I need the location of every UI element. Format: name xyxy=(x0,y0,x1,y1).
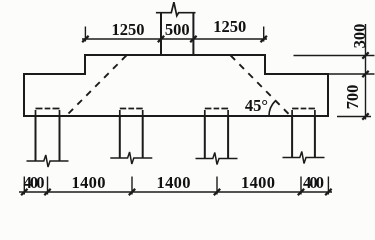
right dim tick at cap bottom xyxy=(362,113,368,119)
bottom dimension line xyxy=(19,191,332,193)
bottom dim tick at x=132 xyxy=(129,189,135,195)
right 45-degree dashed load-spread line xyxy=(231,55,289,114)
left 45-degree dashed load-spread line xyxy=(69,55,127,113)
svg-text:45°: 45° xyxy=(245,96,268,115)
top dim tick at x=264 xyxy=(261,36,267,42)
pile 3 break symbol xyxy=(196,153,238,165)
pile 1 embedded dashed head xyxy=(36,109,60,116)
bottom dim extension at x=328 xyxy=(327,177,329,195)
svg-text:1250: 1250 xyxy=(213,17,246,36)
right dim tick at step level xyxy=(362,71,368,77)
right dim extension at step level xyxy=(329,73,375,75)
pile cap outline (stepped footing) xyxy=(24,55,328,116)
svg-text:700: 700 xyxy=(343,85,362,110)
right dim extension at cap bottom xyxy=(337,116,371,118)
pile 3 shaft xyxy=(205,116,228,159)
top dimension line xyxy=(82,38,267,40)
bottom dim extension at x=301 xyxy=(300,177,302,195)
column left edge xyxy=(160,13,162,55)
svg-text:400: 400 xyxy=(303,173,324,192)
bottom dim tick at x=328 xyxy=(325,189,331,195)
bottom dim extension at x=132 xyxy=(131,177,133,195)
pile 4 break symbol xyxy=(283,152,325,164)
svg-text:1400: 1400 xyxy=(157,173,191,192)
pile 4 shaft xyxy=(292,116,315,158)
right dim tick at cap top xyxy=(362,52,368,58)
bottom dim extension at x=47 xyxy=(47,177,49,195)
top dim tick at x=161 xyxy=(158,36,164,42)
pile 1 break symbol xyxy=(27,155,69,167)
svg-text:500: 500 xyxy=(165,20,190,39)
bottom dim extension at x=217 xyxy=(216,177,218,195)
pile 2 shaft xyxy=(120,116,143,158)
pile 4 embedded dashed head xyxy=(292,109,315,116)
bottom dim tick at x=47 xyxy=(44,189,50,195)
bottom dim tick at x=217 xyxy=(214,189,220,195)
top dim left extension line xyxy=(84,27,86,42)
column right edge xyxy=(192,13,194,55)
right dim extension at cap top xyxy=(294,55,375,57)
bottom dim tick at x=24 xyxy=(21,189,27,195)
45-degree angle arc xyxy=(269,101,275,116)
svg-text:1250: 1250 xyxy=(112,20,145,39)
svg-text:400: 400 xyxy=(24,173,45,192)
svg-text:300: 300 xyxy=(350,24,369,49)
svg-text:1400: 1400 xyxy=(241,173,275,192)
pile 2 embedded dashed head xyxy=(120,109,143,116)
bottom dim extension at x=24 xyxy=(23,177,25,195)
top dim tick at x=193 xyxy=(190,36,196,42)
top dim tick at x=85 xyxy=(82,36,88,42)
pile 2 break symbol xyxy=(110,152,152,164)
bottom dim tick at x=301 xyxy=(298,189,304,195)
pile 1 shaft xyxy=(36,116,60,161)
pile 3 embedded dashed head xyxy=(205,109,228,116)
column top break symbol xyxy=(156,2,196,16)
top dim right extension line xyxy=(263,27,265,42)
right dimension line xyxy=(365,24,367,120)
svg-text:1400: 1400 xyxy=(72,173,106,192)
